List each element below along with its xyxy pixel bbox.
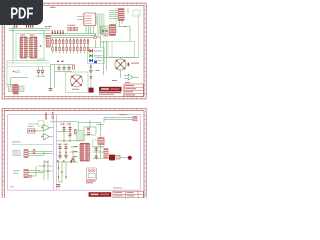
svg-text:PDF: PDF [10,5,33,22]
